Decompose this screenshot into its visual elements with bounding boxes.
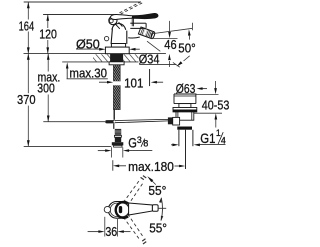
faucet: pull-rod above body	[131, 17, 133, 26]
50 degree lower leader with arrow	[184, 56, 190, 61]
faucet: spout underside	[128, 37, 140, 38]
extension line: top of water spray (164 ref)	[24, 1, 141, 3]
top view: bold collar arc	[116, 202, 128, 218]
svg-text:46: 46	[164, 37, 176, 52]
svg-text:164: 164	[19, 18, 35, 33]
svg-text:Ø63: Ø63	[176, 81, 196, 96]
dimension 40-53 arrows	[215, 81, 217, 89]
drain: neck	[179, 104, 191, 108]
supply tube thread block (checkered)	[115, 129, 121, 136]
svg-text:G1: G1	[200, 131, 215, 146]
extension line flange top right	[197, 93, 219, 95]
extension line drain body bottom right	[194, 112, 222, 114]
dimension 120 vertical line	[47, 15, 49, 29]
faucet: water spray dashed jet	[119, 2, 141, 13]
drain: locknut	[177, 127, 192, 130]
deck underside line	[62, 61, 138, 63]
faucet: threaded shank through deck (dark)	[110, 54, 123, 62]
supply tube lower fitting	[114, 135, 121, 137]
svg-text:120: 120	[39, 27, 57, 42]
svg-text:300: 300	[37, 81, 55, 96]
svg-text:55°: 55°	[148, 183, 166, 198]
faucet: cartridge dome cap	[112, 23, 126, 29]
linkage rod reference line (max300 ref)	[43, 121, 105, 123]
aerator angle line below deck	[147, 41, 160, 51]
drain: tailpipe center line	[185, 130, 187, 169]
faucet: lever neck strokes	[115, 23, 120, 28]
dimension 370 vertical line	[27, 54, 29, 94]
rotation arc with arrows	[161, 198, 163, 221]
drain: flange top line / O63 underline	[174, 93, 196, 95]
extension lines below end cap	[111, 147, 113, 157]
dimension 36 arrows	[88, 231, 100, 233]
svg-text:Ø34: Ø34	[139, 51, 160, 66]
svg-text:3: 3	[137, 135, 142, 145]
tube lower thin section	[113, 110, 115, 120]
bottom reference line: supply connection plane (370 ref)	[24, 145, 112, 147]
G3/8 hex flange	[112, 142, 124, 145]
leader arrow to rotated lever tip	[151, 180, 156, 185]
svg-text:G: G	[128, 136, 137, 151]
svg-text:max.30: max.30	[69, 66, 107, 81]
dimension 46 arrows	[169, 21, 171, 33]
svg-text:370: 370	[17, 92, 36, 107]
top view: faucet body outer	[108, 202, 129, 219]
pop-up rod extension segment	[149, 69, 151, 86]
max.180 arrows	[119, 165, 126, 167]
G3/8 bottom pad	[114, 145, 122, 147]
faucet: lever front knuckle	[109, 17, 117, 25]
dimension max.300 vertical line	[47, 54, 49, 72]
faucet: lever handle blade (side)	[110, 14, 158, 20]
svg-text:55°: 55°	[149, 221, 167, 236]
svg-text:36: 36	[105, 225, 117, 239]
top view: bold center bar	[119, 206, 122, 213]
svg-text:8: 8	[143, 139, 148, 149]
faucet: escutcheon base (two tiers)	[111, 44, 125, 48]
drain: seat flange with seal	[173, 108, 197, 112]
top view: body inner contour	[110, 203, 129, 217]
drain: rod clamp	[168, 117, 173, 124]
faucet: aerator ball joint (hatched)	[138, 27, 155, 39]
horizontal linkage rod	[105, 120, 115, 123]
faucet: spout housing top	[130, 22, 146, 24]
faucet: side screw circle	[104, 36, 108, 40]
top view: solid lever	[129, 203, 153, 215]
faucet: body column	[111, 29, 112, 44]
svg-text:50°: 50°	[178, 40, 195, 55]
faucet: shank nut collar	[109, 62, 124, 65]
svg-text:max.180: max.180	[128, 159, 174, 174]
svg-text:40-53: 40-53	[202, 98, 230, 113]
50 degree upper arrow	[188, 33, 190, 40]
dimension G3/8 arrows at end cap	[98, 150, 106, 152]
max.180 left tick	[112, 160, 114, 171]
deck top line	[24, 53, 166, 55]
aerator mouth height extension line	[152, 37, 178, 39]
aerator axis extension line with end tick	[151, 28, 192, 34]
dimension 164 vertical line	[27, 2, 29, 20]
extension line: top of lever (120 ref)	[43, 14, 117, 16]
label max.30 with leader	[67, 78, 108, 80]
drain: body	[176, 112, 194, 120]
gap in tube for 101 dimension	[112, 81, 121, 85]
drain: tail stub walls	[178, 130, 180, 146]
top view: dashed lever rotated positions 55deg	[123, 179, 140, 202]
svg-text:101: 101	[124, 75, 143, 90]
deck slab cross-section hatch	[47, 0, 189, 126]
supply tube threaded (hatched)	[52, 23, 182, 151]
drain: pop-up cap	[174, 95, 196, 97]
top view: pop-up knob circle	[104, 206, 110, 212]
dimension 101 arrows	[99, 81, 108, 83]
dimension 36 extension lines	[104, 217, 106, 237]
